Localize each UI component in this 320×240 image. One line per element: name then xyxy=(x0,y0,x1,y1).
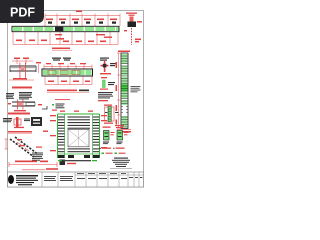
column vertical red xyxy=(19,63,22,79)
red dim line left of strip xyxy=(118,53,120,128)
right small cross detail xyxy=(100,58,117,75)
red sub-caption line xyxy=(55,99,70,101)
beam horizontal bars xyxy=(10,66,36,67)
black text block right of stair xyxy=(32,153,43,161)
top beam: tiny red labels above beam xyxy=(46,11,117,21)
bright green highlighted segment xyxy=(122,84,128,91)
header strip right part xyxy=(75,174,144,176)
logo oval xyxy=(8,175,14,184)
middle window section xyxy=(58,131,99,146)
stair detail xyxy=(5,137,44,161)
red column top bar xyxy=(130,17,134,22)
red dimension with arrows bottom-left xyxy=(9,162,57,167)
red label above xyxy=(126,13,137,14)
middle cells text xyxy=(44,176,73,181)
right small green flag detail xyxy=(100,77,115,90)
svg-text:PDF: PDF xyxy=(10,6,35,20)
red dims left/right of panel xyxy=(50,115,107,151)
top beam: small black section marks xyxy=(48,22,116,24)
central panel: wall reinforcement detail xyxy=(50,111,107,162)
bottom-right notes block xyxy=(112,158,130,168)
red side labels xyxy=(124,30,127,31)
strip body xyxy=(121,53,128,129)
secondary red dim line above title block xyxy=(22,169,45,171)
sheet background xyxy=(0,0,149,198)
middle open section ticks xyxy=(121,107,128,113)
middle beam elevation (beam 2): labels above xyxy=(44,58,92,70)
vertical column strip xyxy=(116,51,141,133)
top beam body with green hatch fill xyxy=(12,26,119,31)
left text paragraphs xyxy=(6,92,32,99)
middle beam body xyxy=(42,69,93,76)
red dim line below xyxy=(9,79,34,81)
red caption text under top beam xyxy=(52,48,70,50)
left joint plan detail xyxy=(8,100,42,112)
black hatched joint square xyxy=(128,22,137,28)
right red dim xyxy=(38,64,40,73)
red caption xyxy=(8,113,30,115)
top-right column section detail xyxy=(124,13,142,46)
red base line below strip xyxy=(117,129,131,131)
bottom rows xyxy=(58,148,99,152)
vertical dividers xyxy=(42,172,139,187)
caption below panel xyxy=(58,160,62,161)
PDF badge xyxy=(0,0,44,23)
right red item lines xyxy=(99,147,101,150)
right header tiny text xyxy=(77,172,126,175)
left mixed notes row xyxy=(3,117,42,128)
small notes with green bullet xyxy=(42,104,65,111)
green mark + red text rows xyxy=(102,153,105,155)
rung lines xyxy=(121,56,128,127)
right pair detail (green ladder in red box) xyxy=(104,105,119,124)
red ticks above panel xyxy=(60,111,65,112)
sheet border frame xyxy=(8,11,144,188)
annotation text block right of strip xyxy=(131,86,141,92)
red dims above xyxy=(14,58,20,60)
red drop lines below top beam xyxy=(13,32,118,45)
red TYP labels between drop lines xyxy=(16,34,112,42)
red caption above left paragraphs xyxy=(12,87,32,89)
green frame xyxy=(57,114,59,158)
right column sections pair xyxy=(103,125,129,144)
bottom corner blocks xyxy=(58,155,65,158)
left cell text xyxy=(16,175,38,185)
caption line under middle beam xyxy=(47,90,77,92)
red dim row xyxy=(8,131,32,133)
left joint detail (beam-column elevation) xyxy=(9,58,41,81)
right cells text xyxy=(77,177,143,179)
red dims below middle beam xyxy=(45,77,92,85)
top rows of rebar xyxy=(58,117,99,129)
title block xyxy=(8,172,144,187)
red dashed column line below xyxy=(131,28,133,45)
red label above strip xyxy=(118,51,130,53)
right notes list xyxy=(98,92,113,98)
top beam elevation: red dimension line above xyxy=(45,14,120,27)
small black detail at center-bottom xyxy=(60,160,66,166)
